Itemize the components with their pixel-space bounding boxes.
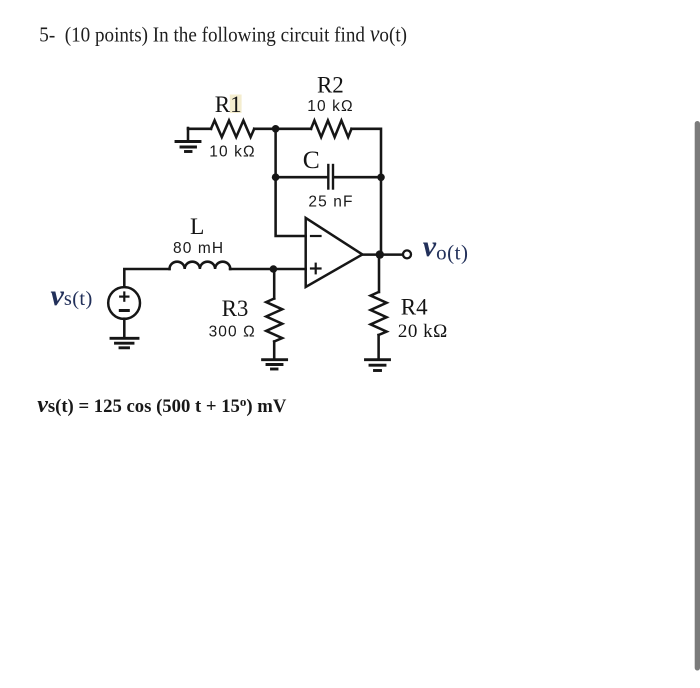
resistor R4 — [371, 292, 387, 335]
capacitor C plates — [327, 165, 329, 189]
svg-text:R1: R1 — [215, 92, 242, 117]
node E (junction +input/R3) — [270, 265, 278, 273]
svg-text:80 mH: 80 mH — [173, 240, 224, 257]
svg-text:5- (10 points) In the followi: 5- (10 points) In the following circuit … — [39, 21, 407, 47]
wire: R4 to ground G4 — [377, 335, 380, 359]
wire: ground G1 to resistor R1 — [188, 128, 211, 131]
node D (capacitor left junction) — [272, 173, 280, 181]
output terminal (open circle) — [403, 250, 411, 258]
highlight behind 1 of R1 label — [230, 95, 242, 114]
svg-text:20 kΩ: 20 kΩ — [398, 321, 448, 342]
node B (capacitor right junction) — [377, 174, 385, 182]
source VS plus marker — [120, 293, 128, 301]
svg-text:R4: R4 — [401, 294, 428, 319]
source VS minus marker — [120, 309, 128, 312]
wire: source VS to ground G2 — [123, 319, 126, 337]
svg-text:vo(t): vo(t) — [423, 230, 469, 264]
op-amp non-inverting input marker — [311, 264, 321, 274]
scrollbar thumb — [695, 121, 700, 671]
op-amp U1 — [306, 218, 363, 287]
wire: node C down to resistor R4 — [378, 255, 381, 292]
node C (output junction) — [376, 250, 384, 258]
ground G1 (left of R1) — [176, 128, 200, 152]
svg-text:vs(t): vs(t) — [51, 279, 93, 312]
svg-text:25 nF: 25 nF — [308, 193, 353, 210]
resistor R3 — [266, 299, 282, 342]
wire: node A down to node D — [274, 129, 277, 177]
svg-text:R2: R2 — [317, 73, 344, 98]
wire: source VS to inductor L — [124, 269, 169, 287]
op-amp inverting input marker — [311, 235, 321, 237]
title — [39, 21, 407, 47]
wire: node E down to resistor R3 — [273, 269, 276, 299]
svg-text:C: C — [303, 145, 320, 174]
node A (junction R1/R2/feedback) — [272, 125, 280, 133]
wire: R1 to node A — [254, 128, 275, 131]
svg-text:L: L — [190, 214, 204, 240]
capacitor C wires — [276, 176, 328, 179]
wire: op-amp output to terminal — [362, 253, 402, 256]
ground G2 (below source) — [111, 338, 138, 348]
ground G3 (below R3) — [263, 360, 287, 369]
resistor R2 — [311, 121, 352, 138]
resistor R1 — [211, 121, 254, 138]
wire: R3 to ground G3 — [273, 342, 276, 359]
wire: node E to op-amp non-inverting input — [273, 268, 305, 271]
svg-text:vs(t) = 125 cos (500 t + 15o): vs(t) = 125 cos (500 t + 15o) mV — [37, 392, 287, 418]
svg-text:R3: R3 — [222, 296, 249, 321]
wire: R2 to right feedback rail — [352, 129, 382, 177]
wire: inductor L to node E — [230, 268, 273, 271]
wire: node B down to output node — [380, 177, 383, 254]
wire: node A to resistor R2 — [276, 128, 311, 131]
svg-text:10 kΩ: 10 kΩ — [209, 143, 255, 160]
svg-text:10 kΩ: 10 kΩ — [307, 98, 353, 115]
wire: node D to op-amp inverting input — [276, 177, 306, 236]
inductor L — [170, 262, 231, 269]
svg-text:300 Ω: 300 Ω — [209, 323, 256, 340]
source VS circle — [108, 287, 140, 319]
ground G4 (below R4) — [366, 360, 390, 371]
